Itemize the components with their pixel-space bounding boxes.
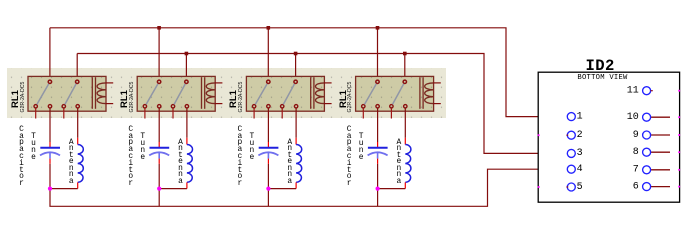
capacitor C1 stem (49, 152, 51, 158)
wire - RL1 unit 2 pin4 down to antenna coil (186, 108, 188, 138)
inductor L4 bottom pin (404, 182, 406, 188)
wire - unit 4 junction drop to bottom bus (377, 189, 379, 207)
wire - ID2 pin 8 stub (651, 151, 670, 153)
wire - RL1 unit 3 coil stub bottom (324, 103, 332, 105)
label RL1 (unit 2) reference (119, 79, 133, 119)
RL1 unit 3 bottom pin 4 (294, 105, 297, 108)
RL1 unit 1 coil winding (97, 83, 106, 104)
capacitor C4 bottom pin (377, 159, 379, 164)
inductor L1 (Antenna) top pin (77, 138, 79, 145)
RL1 unit 3 coil winding (316, 83, 325, 104)
wire - RL1 unit 4 coil stub bottom (433, 103, 441, 105)
RL1 unit 4 bottom pin 3 (390, 105, 393, 108)
label RL1 (unit 3) reference (228, 79, 242, 119)
capacitor C3 flat plate (259, 147, 279, 149)
svg-text:8: 8 (633, 147, 639, 158)
capacitor C4 flat plate (368, 147, 388, 149)
RL1 unit 2 coil winding (206, 83, 215, 104)
wire - bus2 drop to RL1 unit 3 pin B (295, 54, 297, 81)
ID2 pin 10 circle (643, 113, 651, 121)
RL1 unit 4 top pin B (403, 80, 406, 83)
wire - bottom ground bus (caps/coils common, runs to ID2 pin 4) (50, 169, 567, 206)
RL1 unit 2 top pin A (157, 80, 160, 83)
wire - bus1 drop to RL1 unit 4 pin A (377, 28, 379, 81)
RL1 unit 4 bottom pin 4 (404, 105, 407, 108)
RL1 unit 2 coil core bar 1 (201, 77, 203, 109)
wire - RL1 unit 1 coil stub top (106, 82, 114, 84)
RL1 unit 3 pin stub below pin 1 (253, 108, 255, 118)
wire - top bus 2 (relay common B bus, runs to ID2 pin 3) (77, 54, 567, 154)
wire - capacitor C4 to junction (377, 164, 379, 189)
inductor L4 (Antenna) winding (405, 145, 411, 183)
RL1 unit 2 bottom pin 4 (185, 105, 188, 108)
wire - RL1 unit 1 pin2 down to capacitor (49, 108, 51, 142)
RL1 unit 1 pin stub below pin 3 (63, 108, 65, 118)
tan background band behind relays (7, 68, 446, 118)
label Capacitor (unit 3) (234, 127, 246, 188)
junction on bus 1 at unit 4 (376, 26, 380, 30)
RL1 unit 3 switch blade 2 (283, 84, 294, 105)
ID2 pin 8 circle (643, 148, 651, 156)
wire - RL1 unit 1 coil stub bottom (106, 103, 114, 105)
junction on bus 2 at unit 4 (403, 52, 407, 56)
RL1 unit 4 coil core bar 2 (422, 77, 424, 109)
RL1 unit 4 switch blade 2 (393, 84, 404, 105)
RL1 unit 4 coil core bar 1 (419, 77, 421, 109)
capacitor C2 flat plate (150, 147, 170, 149)
inductor L2 (Antenna) winding (187, 145, 193, 183)
ID2 pin 7 origin marker (678, 169, 680, 171)
RL1 unit 4 switch blade 1 (365, 84, 377, 105)
junction on bus 1 at unit 2 (157, 26, 161, 30)
ID2 pin 5 circle (567, 183, 575, 191)
inductor L4 (Antenna) top pin (404, 138, 406, 145)
wire - inductor L1 to junction (50, 188, 78, 190)
wire - RL1 unit 4 pin4 down to antenna coil (404, 108, 406, 138)
RL1 unit 1 bottom pin 2 (48, 105, 51, 108)
ID2 pin 7 circle (643, 166, 651, 174)
capacitor C4 stem (377, 152, 379, 158)
junction on bus 1 at unit 3 (267, 26, 271, 30)
label Capacitor (unit 2) (125, 127, 137, 188)
RL1 unit 2 coil core bar 2 (204, 77, 206, 109)
RL1 unit 4 bottom pin 1 (362, 105, 365, 108)
capacitor C1 flat plate (40, 147, 60, 149)
wire - bus2 left drop to RL1 unit 1 pin B (76, 54, 78, 81)
ID2 pin 3 circle (567, 149, 575, 157)
label RL1 (unit 1) part number (20, 77, 28, 117)
RL1 unit 2 pin stub below pin 3 (172, 108, 174, 118)
inductor L3 bottom pin (295, 182, 297, 188)
svg-text:4: 4 (577, 164, 583, 175)
RL1 unit 4 bottom pin 2 (376, 105, 379, 108)
RL1 unit 3 top pin A (267, 80, 270, 83)
RL1 unit 4 pin stub below pin 1 (362, 108, 364, 118)
label Capacitor (unit 4) (343, 127, 355, 188)
wire - RL1 unit 3 pin4 down to antenna coil (295, 108, 297, 138)
capacitor C2 (Tune Capacitor) top pin (158, 142, 160, 147)
svg-text:1: 1 (577, 111, 583, 122)
label Tune (unit 4) (355, 134, 367, 162)
capacitor C3 (Tune Capacitor) top pin (267, 142, 269, 147)
RL1 unit 1 switch blade 2 (65, 84, 76, 105)
label RL1 (unit 4) part number (347, 77, 355, 117)
wire - ID2 pin 9 stub (651, 134, 670, 136)
RL1 unit 1 coil core bar 1 (91, 77, 93, 109)
wire - bus2 drop to RL1 unit 2 pin B (185, 54, 187, 81)
ID2 pin 1 circle (567, 113, 575, 121)
wire - capacitor C1 to junction (49, 164, 51, 189)
relay RL1 (unit 2) body (137, 76, 215, 111)
inductor L2 bottom pin (186, 182, 188, 188)
RL1 unit 3 coil core bar 2 (313, 77, 315, 109)
wire - inductor L4 to junction (378, 188, 406, 190)
RL1 unit 3 bottom pin 2 (267, 105, 270, 108)
wire - ID2 pin 10 stub (651, 116, 670, 118)
inductor L1 (Antenna) winding (78, 145, 84, 183)
label ID2 connector reference (586, 57, 615, 75)
label Capacitor (unit 1) (16, 127, 28, 188)
wire - inductor L3 to junction (268, 188, 296, 190)
junction on bus 2 at unit 2 (185, 52, 189, 56)
RL1 unit 1 top pin A (48, 80, 51, 83)
RL1 unit 3 pin stub below pin 3 (281, 108, 283, 118)
capacitor C2 stem (158, 152, 160, 158)
svg-text:10: 10 (627, 112, 639, 123)
relay RL1 (unit 4) body (356, 76, 434, 111)
junction on bus 2 at unit 3 (294, 52, 298, 56)
RL1 unit 1 bottom pin 1 (34, 105, 37, 108)
ID2 pin 2 origin marker (538, 134, 540, 136)
capacitor C3 curved plate (258, 152, 278, 155)
ID2 pin 9 circle (643, 131, 651, 139)
inductor L1 bottom pin (77, 182, 79, 188)
connector ID2 body (BOTTOM VIEW) (538, 72, 679, 202)
RL1 unit 2 switch blade 1 (146, 84, 158, 105)
ID2 pin 11 origin marker (678, 90, 680, 92)
label Tune (unit 3) (246, 134, 258, 162)
label Antenna (unit 4) (393, 140, 405, 186)
svg-text:5: 5 (577, 182, 583, 193)
ID2 pin 2 stub tick (566, 134, 568, 136)
wire - capacitor C2 to junction (158, 164, 160, 189)
RL1 unit 2 pin stub below pin 1 (144, 108, 146, 118)
capacitor C3 bottom pin (267, 159, 269, 164)
wire - RL1 unit 1 pin4 down to antenna coil (77, 108, 79, 138)
ID2 pin 11 circle (643, 87, 651, 95)
ID2 pin 8 origin marker (678, 151, 680, 153)
label Tune (unit 1) (28, 134, 40, 162)
wire - capacitor C3 to junction (267, 164, 269, 189)
wire - ID2 pin 6 stub (651, 186, 670, 188)
node - unit 4 cap/coil junction (376, 187, 380, 191)
RL1 unit 1 coil core bar 2 (95, 77, 97, 109)
wire - bus2 drop to RL1 unit 4 pin B (404, 54, 406, 81)
ID2 pin 6 circle (643, 183, 651, 191)
RL1 unit 4 coil winding (425, 83, 434, 104)
RL1 unit 1 pin stub below pin 1 (35, 108, 37, 118)
ID2 pin 6 origin marker (678, 186, 680, 188)
ID2 pin 2 circle (567, 131, 575, 139)
RL1 unit 2 switch blade 2 (174, 84, 185, 105)
label Antenna (unit 3) (284, 140, 296, 186)
wire - unit 2 junction drop to bottom bus (158, 189, 160, 207)
ID2 pin 10 origin marker (678, 116, 680, 118)
label Antenna (unit 2) (175, 140, 187, 186)
ID2 pin 5 stub tick (566, 186, 568, 188)
RL1 unit 4 top pin A (376, 80, 379, 83)
wire - RL1 unit 4 coil stub top (433, 82, 441, 84)
RL1 unit 1 bottom pin 3 (62, 105, 65, 108)
svg-text:3: 3 (577, 148, 583, 159)
wire - bus1 drop to RL1 unit 3 pin A (267, 28, 269, 81)
RL1 unit 4 pin stub below pin 3 (390, 108, 392, 118)
wire - RL1 unit 4 pin2 down to capacitor (377, 108, 379, 142)
RL1 unit 3 switch blade 1 (255, 84, 267, 105)
svg-text:11: 11 (627, 86, 639, 97)
wire - RL1 unit 2 coil stub bottom (215, 103, 223, 105)
svg-text:9: 9 (633, 130, 639, 141)
wire - RL1 unit 2 pin2 down to capacitor (158, 108, 160, 142)
capacitor C2 curved plate (149, 152, 169, 155)
node - unit 3 cap/coil junction (266, 187, 270, 191)
svg-text:7: 7 (633, 165, 639, 176)
RL1 unit 2 bottom pin 2 (158, 105, 161, 108)
inductor L3 (Antenna) top pin (295, 138, 297, 145)
RL1 unit 1 bottom pin 4 (76, 105, 79, 108)
svg-text:2: 2 (577, 130, 583, 141)
relay RL1 (unit 3) body (246, 76, 324, 111)
capacitor C4 (Tune Capacitor) top pin (377, 142, 379, 147)
wire - unit 3 junction drop to bottom bus (267, 189, 269, 207)
RL1 unit 1 switch blade 1 (37, 84, 49, 105)
wire - bus1 drop to RL1 unit 2 pin A (158, 28, 160, 81)
label Antenna (unit 1) (65, 140, 77, 186)
label RL1 (unit 2) part number (129, 77, 137, 117)
RL1 unit 1 top pin B (76, 80, 79, 83)
ID2 pin 11 stub tick (651, 90, 653, 92)
node - unit 2 cap/coil junction (157, 187, 161, 191)
capacitor C1 bottom pin (49, 159, 51, 164)
relay RL1 (unit 1) body (28, 76, 106, 111)
capacitor C2 bottom pin (158, 159, 160, 164)
capacitor C3 stem (267, 152, 269, 158)
RL1 unit 3 top pin B (294, 80, 297, 83)
capacitor C4 curved plate (368, 152, 388, 155)
wire - RL1 unit 2 coil stub top (215, 82, 223, 84)
ID2 pin 5 origin marker (538, 186, 540, 188)
wire - inductor L2 to junction (159, 188, 187, 190)
wire - RL1 unit 3 coil stub top (324, 82, 332, 84)
wire - ID2 pin 7 stub (651, 169, 670, 171)
RL1 unit 2 bottom pin 1 (143, 105, 146, 108)
node - unit 1 cap/coil junction (48, 187, 52, 191)
wire - top bus 1 (relay common A bus, runs to ID2 pin 1) (50, 28, 567, 117)
ID2 pin 4 circle (567, 165, 575, 173)
svg-text:6: 6 (633, 181, 639, 192)
label RL1 (unit 3) part number (238, 77, 246, 117)
inductor L3 (Antenna) winding (296, 145, 302, 183)
RL1 unit 3 bottom pin 3 (281, 105, 284, 108)
label BOTTOM VIEW (552, 74, 653, 82)
RL1 unit 3 coil core bar 1 (310, 77, 312, 109)
wire - bus1 left drop to RL1 unit 1 pin A (49, 28, 51, 81)
label RL1 (unit 1) reference (10, 79, 24, 119)
label Tune (unit 2) (137, 134, 149, 162)
ID2 pin 9 origin marker (678, 134, 680, 136)
RL1 unit 3 bottom pin 1 (252, 105, 255, 108)
RL1 unit 2 top pin B (185, 80, 188, 83)
inductor L2 (Antenna) top pin (186, 138, 188, 145)
label RL1 (unit 4) reference (338, 79, 352, 119)
capacitor C1 curved plate (40, 152, 60, 155)
wire - RL1 unit 3 pin2 down to capacitor (267, 108, 269, 142)
capacitor C1 (Tune Capacitor) top pin (49, 142, 51, 147)
RL1 unit 2 bottom pin 3 (171, 105, 174, 108)
